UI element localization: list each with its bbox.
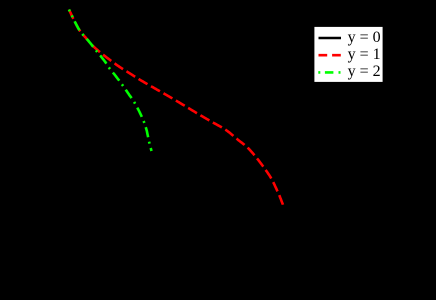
- curve y=0 (black, invisible on black background): [69, 10, 98, 69]
- svg-text:y = 1: y = 1: [348, 46, 381, 63]
- curve y=1 (red dashed): [69, 10, 283, 206]
- legend sample y=0 solid black: [319, 37, 342, 40]
- svg-text:y = 0: y = 0: [348, 29, 381, 46]
- svg-text:y = 2: y = 2: [348, 63, 381, 80]
- curve y=2 (green dash-dot): [69, 10, 152, 152]
- legend box: [314, 27, 382, 82]
- legend sample y=1 red dashed: [319, 54, 342, 57]
- legend sample y=2 green dash-dot: [318, 71, 340, 74]
